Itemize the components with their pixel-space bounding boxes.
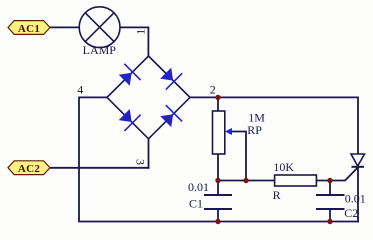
- svg-text:AC2: AC2: [18, 163, 40, 175]
- svg-text:C1: C1: [189, 196, 203, 210]
- svg-text:3: 3: [133, 159, 147, 165]
- svg-text:C2: C2: [344, 206, 358, 220]
- svg-text:0.01: 0.01: [188, 180, 209, 194]
- svg-text:AC1: AC1: [18, 23, 40, 35]
- svg-text:1: 1: [134, 29, 148, 35]
- svg-text:2: 2: [210, 82, 216, 96]
- svg-text:R: R: [273, 188, 281, 202]
- svg-text:4: 4: [77, 83, 83, 97]
- svg-text:RP: RP: [247, 123, 262, 137]
- svg-text:10K: 10K: [273, 160, 294, 174]
- svg-text:LAMP: LAMP: [83, 43, 117, 57]
- svg-text:0.01: 0.01: [345, 191, 366, 205]
